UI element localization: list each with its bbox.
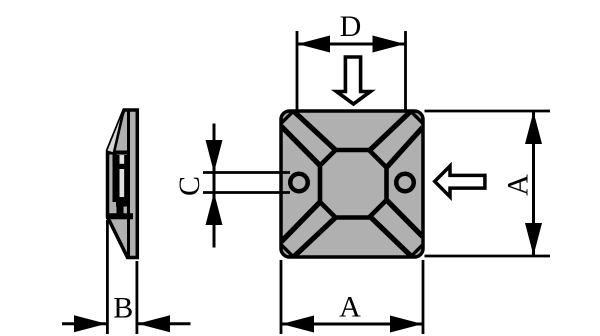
- channel line BL lower: [294, 218, 336, 257]
- A right arrow down: [525, 223, 542, 256]
- corner chamfer TR: [411, 111, 424, 124]
- C extension line top: [203, 171, 290, 174]
- C arrow up: [206, 193, 223, 226]
- A bottom extension line left: [280, 260, 283, 334]
- channel line BL upper: [282, 202, 321, 242]
- svg-text:D: D: [340, 10, 362, 43]
- side view inner vertical line v0: [113, 154, 118, 200]
- corner chamfer TL: [281, 111, 294, 124]
- channel line BR upper: [387, 200, 423, 237]
- svg-text:C: C: [173, 176, 206, 196]
- side view slot light interior: [120, 155, 125, 202]
- side view thick bar h3: [106, 213, 133, 219]
- channel line TL upper: [294, 112, 336, 151]
- corner chamfer BL: [281, 245, 294, 258]
- D extension line left: [296, 31, 299, 110]
- D arrow left: [298, 36, 331, 53]
- B arrow right: [138, 315, 171, 332]
- A right dimension line: [532, 112, 535, 255]
- C dimension line: [213, 124, 216, 248]
- svg-text:B: B: [113, 292, 133, 325]
- channel line TR lower: [387, 128, 423, 168]
- B dimension line left: [62, 322, 106, 325]
- corner chamfer BR: [411, 245, 424, 258]
- A right arrow up: [525, 112, 542, 145]
- side view slot crossbar: [117, 164, 127, 169]
- channel line TL lower: [282, 127, 321, 166]
- A bottom arrow left: [282, 316, 315, 333]
- D extension line right: [404, 31, 407, 110]
- channel line TR upper: [370, 112, 411, 151]
- B extension line left: [106, 220, 109, 334]
- svg-text:A: A: [502, 174, 535, 196]
- hole right: [396, 174, 414, 192]
- C extension line bottom: [203, 191, 290, 194]
- side view inner vertical line v1: [127, 111, 130, 256]
- D arrow right: [373, 36, 406, 53]
- octagon: [320, 150, 387, 218]
- B extension line right: [135, 261, 138, 334]
- top view body: [281, 111, 423, 257]
- A right extension line bottom: [425, 255, 551, 258]
- B dimension line right: [138, 322, 191, 325]
- C arrow down: [206, 140, 223, 173]
- side view slot left wall: [113, 155, 120, 202]
- A bottom arrow right: [390, 316, 423, 333]
- channel line BR lower: [371, 218, 412, 257]
- side view chamfer inner edge: [114, 111, 124, 153]
- side view chamfer light band: [108, 110, 125, 153]
- A bottom dimension line: [282, 323, 422, 326]
- hollow arrow down: [337, 57, 371, 104]
- A bottom extension line right: [422, 260, 425, 334]
- B arrow left: [74, 315, 107, 332]
- side view body: [108, 110, 138, 258]
- A right extension line top: [425, 110, 551, 113]
- side view crossbar h2: [116, 197, 130, 207]
- side view slot right wall: [124, 155, 130, 202]
- hole left: [290, 174, 308, 192]
- D dimension line: [298, 43, 405, 46]
- side view inner horizontal line h1: [108, 151, 129, 155]
- svg-text:A: A: [339, 291, 361, 324]
- side view middle stub: [117, 205, 124, 214]
- hollow arrow left: [435, 166, 485, 197]
